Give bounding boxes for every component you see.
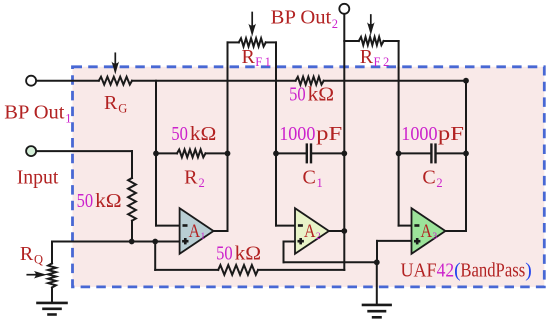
node: input junction <box>129 239 135 245</box>
svg-text:Q: Q <box>34 252 43 266</box>
resistor 50k input (vertical) <box>128 178 136 221</box>
wire: A1 minus branch vertical <box>155 81 157 226</box>
wire: A3 plus lead <box>377 240 412 242</box>
wire: A3 output vertical <box>465 81 467 231</box>
node: ground junction <box>374 259 380 265</box>
svg-text:pF: pF <box>438 124 464 145</box>
wire: R_Q top <box>51 242 53 264</box>
node: C2 right <box>463 151 469 157</box>
arrow for R_Q adjustment <box>27 274 36 276</box>
wire: A2 minus lead <box>276 225 296 227</box>
wire <box>376 241 378 262</box>
wire: A1 output vertical (R_F1 left leg) <box>227 42 229 231</box>
svg-text:R: R <box>242 46 256 68</box>
arrow for R_F1 adjustment <box>251 13 253 26</box>
svg-text:A: A <box>421 222 433 242</box>
wire: A1 minus lead <box>156 225 181 227</box>
svg-text:R: R <box>184 166 198 188</box>
wire <box>131 221 133 242</box>
svg-text:F 2: F 2 <box>374 55 390 69</box>
wire: main top rail from BP Out1 terminal to top-right corner <box>36 80 99 82</box>
arrow for R_G adjustment <box>114 53 116 63</box>
wire: A3 minus lead <box>399 225 412 227</box>
wire: input terminal lead <box>36 150 132 152</box>
svg-text:50: 50 <box>77 191 94 212</box>
svg-text:2: 2 <box>199 176 205 190</box>
op-amp A3 (U1C) <box>412 208 446 254</box>
svg-text:BandPass: BandPass <box>460 260 525 281</box>
wire <box>258 269 344 271</box>
resistor R_G <box>99 77 132 85</box>
resistor R_Q (vertical) <box>48 263 56 287</box>
svg-text:C: C <box>422 166 435 188</box>
svg-text:A: A <box>189 222 201 242</box>
svg-text:1: 1 <box>201 232 206 242</box>
svg-text:1: 1 <box>65 112 71 126</box>
wire <box>283 242 285 263</box>
wire <box>324 80 466 82</box>
wire: A3 output lead <box>446 230 466 232</box>
node: top right corner <box>463 78 469 84</box>
svg-text:kΩ: kΩ <box>308 84 335 105</box>
wire <box>155 269 218 271</box>
svg-text:50: 50 <box>171 124 188 145</box>
svg-text:kΩ: kΩ <box>190 124 217 145</box>
svg-text:2: 2 <box>332 17 338 31</box>
svg-text:kΩ: kΩ <box>235 243 262 264</box>
svg-text:1000: 1000 <box>401 124 437 145</box>
svg-text:1: 1 <box>317 176 323 190</box>
node: C1 left <box>273 151 279 157</box>
wire: input row to A1 plus <box>52 241 181 243</box>
wire: A2 plus lead and ground path <box>284 241 297 243</box>
svg-text:kΩ: kΩ <box>95 191 122 212</box>
svg-text:R: R <box>20 243 34 265</box>
node: A1 plus summing node <box>152 239 158 245</box>
node: R2 left <box>153 151 159 157</box>
svg-text:42: 42 <box>437 260 455 281</box>
terminal BP Out1 <box>26 76 36 86</box>
ground (main) <box>363 304 391 307</box>
wire: A3 minus vertical (R_F2 right leg) <box>398 41 400 226</box>
svg-text:BP Out: BP Out <box>4 101 65 123</box>
resistor 50k feedback (bottom) <box>218 265 258 275</box>
svg-text:A: A <box>304 222 316 242</box>
svg-text:pF: pF <box>316 124 342 145</box>
wire: riser to A2 output <box>343 231 345 270</box>
svg-text:1000: 1000 <box>279 124 315 145</box>
op-amp A1 (U1A) <box>180 208 214 254</box>
wire <box>131 151 133 178</box>
op-amp A2 (U1B) <box>295 208 329 254</box>
svg-text:3: 3 <box>432 232 437 242</box>
capacitor C2 <box>399 152 431 154</box>
svg-text:Input: Input <box>17 167 59 189</box>
svg-text:50: 50 <box>216 243 233 264</box>
wire: A2 output lead <box>330 230 344 232</box>
svg-text:C: C <box>303 166 316 188</box>
wire: ground node down <box>376 262 378 305</box>
ground (below R_Q) <box>38 302 67 305</box>
capacitor C1 <box>276 152 306 154</box>
svg-text:F 1: F 1 <box>255 55 271 69</box>
node: R2 right / A1 out <box>225 151 231 157</box>
svg-text:BP Out: BP Out <box>271 7 332 29</box>
wire <box>132 80 296 82</box>
wire <box>284 261 377 263</box>
svg-text:2: 2 <box>316 232 321 242</box>
svg-text:): ) <box>525 260 532 281</box>
resistor R_F2 bridge <box>344 40 359 42</box>
resistor R2 row <box>156 152 177 154</box>
node: C1 right <box>341 151 347 157</box>
node: A2 output <box>341 228 347 234</box>
UAF42 IC boundary (dashed box with pink fill) <box>73 67 545 287</box>
svg-text:G: G <box>118 101 127 115</box>
node: C2 left <box>396 151 402 157</box>
resistor 50k (A1 feedback to A3 output) <box>296 77 324 85</box>
svg-text:R: R <box>104 92 118 114</box>
terminal BP Out2 <box>339 4 349 14</box>
wire: A1 output lead <box>212 230 228 232</box>
svg-text:UAF: UAF <box>401 260 437 281</box>
resistor R_F1 bridge <box>228 41 239 43</box>
arrow for R_F2 adjustment <box>370 15 372 24</box>
svg-text:50: 50 <box>289 84 306 105</box>
svg-text:R: R <box>360 46 374 68</box>
wire: BP Out2 / A2 output vertical <box>343 14 345 231</box>
svg-text:2: 2 <box>436 176 442 190</box>
wire: bottom 50k feedback, A1 plus node down <box>154 242 156 270</box>
wire: A2 minus vertical (R_F1 right leg) <box>275 42 277 225</box>
terminal Input <box>26 146 36 156</box>
wire: R_Q to ground <box>51 288 53 303</box>
